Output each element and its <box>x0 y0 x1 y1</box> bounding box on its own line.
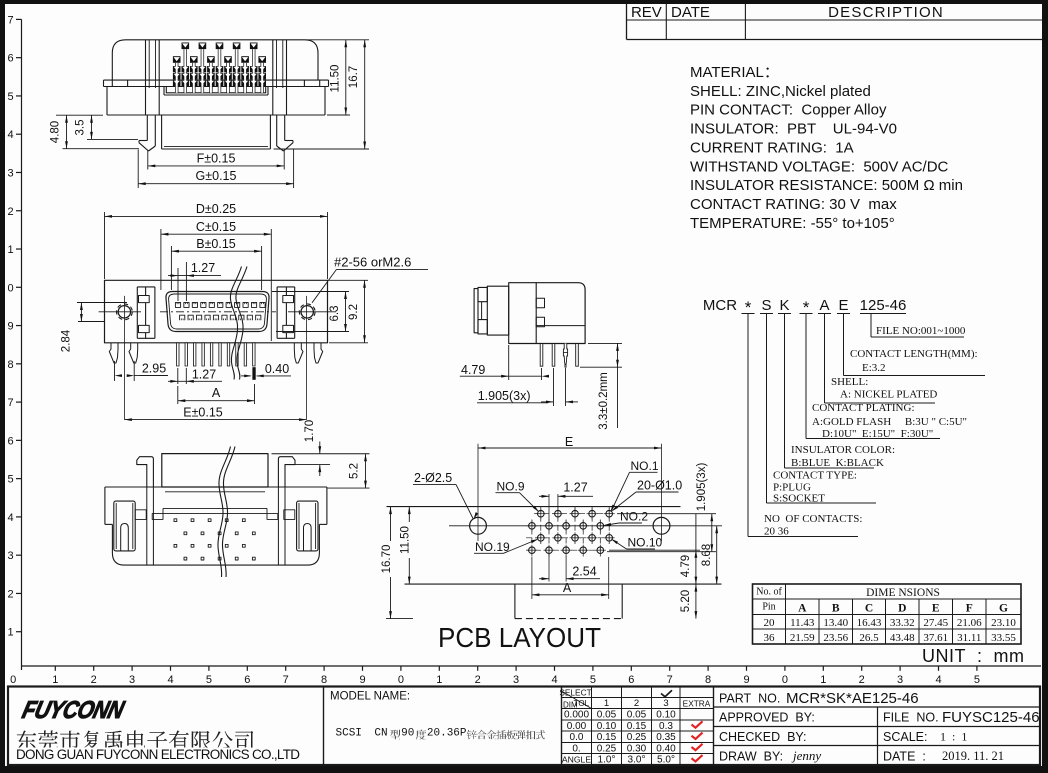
V5 dimension 16.70 <box>390 507 392 541</box>
svg-text:31.11: 31.11 <box>957 632 981 644</box>
svg-text:1.0°: 1.0° <box>598 755 616 766</box>
D-shroud outer <box>166 292 269 332</box>
svg-text:EXTRA: EXTRA <box>683 699 711 709</box>
svg-text:F±0.15: F±0.15 <box>197 151 236 165</box>
svg-text:4.80: 4.80 <box>50 121 62 143</box>
svg-text:8.68: 8.68 <box>701 544 713 566</box>
svg-text:9: 9 <box>7 321 13 333</box>
V5 dimension 4.79 <box>609 549 700 551</box>
svg-text:DATE :: DATE : <box>883 750 926 764</box>
svg-text:125-46: 125-46 <box>860 297 907 314</box>
svg-text:G: G <box>999 603 1008 615</box>
svg-text:20: 20 <box>764 617 776 629</box>
svg-text:0.3: 0.3 <box>659 721 673 732</box>
svg-text:2: 2 <box>475 674 481 686</box>
svg-text:5: 5 <box>7 474 13 486</box>
svg-text:MCR: MCR <box>703 297 737 314</box>
svg-text:6.3: 6.3 <box>329 306 341 322</box>
svg-text:CONTACT LENGTH(MM):: CONTACT LENGTH(MM): <box>850 348 978 360</box>
svg-text:0.15: 0.15 <box>597 732 617 743</box>
mounting holes 2-Ø2.5 <box>470 517 487 534</box>
svg-text:20-Ø1.0: 20-Ø1.0 <box>637 479 682 493</box>
svg-text:33.55: 33.55 <box>991 632 1016 644</box>
svg-text:8: 8 <box>7 359 13 371</box>
svg-text:WITHSTAND VOLTAGE: 500V AC/DC: WITHSTAND VOLTAGE: 500V AC/DC <box>690 158 949 175</box>
svg-text:PIN CONTACT: Copper Alloy: PIN CONTACT: Copper Alloy <box>690 102 887 119</box>
svg-text:DIME NSIONS: DIME NSIONS <box>866 587 940 599</box>
V5 dimension 2.54 <box>548 554 550 582</box>
svg-text:2: 2 <box>7 588 13 600</box>
left ruler <box>16 18 22 20</box>
center line of contacts <box>160 311 276 313</box>
pins row (front view) <box>177 343 179 366</box>
svg-text:16.43: 16.43 <box>857 617 882 629</box>
svg-text:9: 9 <box>743 674 749 686</box>
svg-text:A: A <box>819 297 829 314</box>
svg-text:Pin: Pin <box>762 602 775 613</box>
svg-text:3: 3 <box>663 698 668 709</box>
board tab <box>514 584 516 619</box>
V1 dimension 4.80 <box>56 114 103 116</box>
svg-text:APPROVED BY:: APPROVED BY: <box>719 711 815 725</box>
tolerance select table <box>562 697 714 699</box>
svg-text:2019. 11. 21: 2019. 11. 21 <box>942 749 1004 763</box>
svg-text:K: K <box>779 297 789 314</box>
V5 dimension 11.50 <box>408 507 410 522</box>
svg-text:11.50: 11.50 <box>400 526 412 554</box>
svg-text:0.40: 0.40 <box>265 362 289 376</box>
front body <box>105 280 328 343</box>
flange notches <box>536 298 544 308</box>
svg-text:0.05: 0.05 <box>597 710 617 721</box>
svg-text:23.10: 23.10 <box>991 617 1016 629</box>
svg-text:S:SOCKET: S:SOCKET <box>773 493 825 505</box>
svg-text:0: 0 <box>398 674 404 686</box>
svg-text:ANGLE: ANGLE <box>562 755 591 765</box>
svg-text:MODEL NAME:: MODEL NAME: <box>330 691 410 703</box>
pins (side view) <box>540 344 543 367</box>
svg-text:0.0: 0.0 <box>570 732 584 743</box>
V2 dimension 2.84 <box>77 302 127 304</box>
svg-text:SHELL:: SHELL: <box>831 376 868 388</box>
svg-text:13.40: 13.40 <box>823 617 848 629</box>
legs with hooks (top view) <box>146 115 148 141</box>
V1 dimension 16.7 <box>350 39 369 41</box>
svg-text:20 36: 20 36 <box>764 526 789 538</box>
svg-text:UNIT : mm: UNIT : mm <box>922 646 1025 666</box>
V4 dimension 3.3±0.2mm <box>588 342 622 344</box>
VIEW 2: connector front view <box>99 280 336 419</box>
svg-text:1.27: 1.27 <box>192 368 216 382</box>
shroud rear face <box>162 454 268 487</box>
svg-text:3: 3 <box>513 674 519 686</box>
svg-text:FILE NO.: FILE NO. <box>883 711 939 725</box>
svg-text:NO.9: NO.9 <box>497 479 525 493</box>
step notches <box>152 514 163 520</box>
pin holes 20-Ø1.0 <box>538 510 545 517</box>
svg-text:A: A <box>212 386 221 400</box>
svg-text:5: 5 <box>7 91 13 103</box>
svg-text:23.56: 23.56 <box>823 632 848 644</box>
svg-text:7: 7 <box>7 397 13 409</box>
V5 dimension E <box>478 447 662 449</box>
svg-text:TEMPERATURE: -55° to+105°: TEMPERATURE: -55° to+105° <box>690 215 895 232</box>
svg-text:1.905(3x): 1.905(3x) <box>696 463 708 512</box>
svg-text:0.05: 0.05 <box>627 710 647 721</box>
svg-text:0.40: 0.40 <box>656 744 676 755</box>
VIEW 4: connector side view <box>474 283 585 368</box>
svg-text:16.7: 16.7 <box>348 66 360 88</box>
main block <box>105 486 327 488</box>
svg-text:DRAW BY:: DRAW BY: <box>719 750 783 764</box>
svg-text:21.06: 21.06 <box>957 617 982 629</box>
svg-text:1.27: 1.27 <box>191 261 215 275</box>
svg-text:6: 6 <box>628 674 634 686</box>
svg-text:PART NO.: PART NO. <box>719 692 780 706</box>
break squiggle (front view) <box>230 267 241 380</box>
svg-text:MATERIAL：: MATERIAL： <box>690 64 779 81</box>
svg-text:5.0°: 5.0° <box>657 755 675 766</box>
V5 dimension A <box>531 557 533 599</box>
outer frame borders <box>0 0 1048 4</box>
svg-text:A: NICKEL PLATED: A: NICKEL PLATED <box>840 389 937 401</box>
svg-text:DIM: DIM <box>563 701 578 710</box>
mating face strip <box>474 289 478 333</box>
svg-text:E: E <box>565 435 573 449</box>
svg-text:1.905(3x): 1.905(3x) <box>478 389 531 403</box>
board edge top <box>387 506 681 508</box>
svg-text:1: 1 <box>820 674 826 686</box>
svg-text:E: E <box>838 297 848 314</box>
svg-text:37.61: 37.61 <box>923 632 948 644</box>
svg-text:FILE NO:001~1000: FILE NO:001~1000 <box>876 325 966 337</box>
svg-text:0.10: 0.10 <box>656 710 676 721</box>
svg-text:2.54: 2.54 <box>572 564 596 578</box>
pin tray recess <box>166 87 265 93</box>
REV DATE DESCRIPTION table <box>626 3 628 40</box>
svg-text:CHECKED BY:: CHECKED BY: <box>719 730 807 744</box>
svg-text:11.50: 11.50 <box>330 65 342 93</box>
svg-text:G±0.15: G±0.15 <box>196 169 237 183</box>
svg-text:7: 7 <box>283 674 289 686</box>
svg-text:4: 4 <box>7 129 13 141</box>
V5 dimension 8.68 <box>716 526 718 584</box>
svg-text:27.45: 27.45 <box>923 617 948 629</box>
svg-text:0: 0 <box>7 282 13 294</box>
svg-text:1: 1 <box>436 674 442 686</box>
svg-text:7: 7 <box>7 14 13 26</box>
grid centerlines dashed <box>534 513 614 515</box>
svg-text:20.36P: 20.36P <box>427 728 467 740</box>
svg-text:1 : 1: 1 : 1 <box>940 730 967 744</box>
svg-text:6: 6 <box>244 674 250 686</box>
dimensions table <box>753 584 1022 644</box>
svg-text:C: C <box>865 603 873 615</box>
svg-text:jenny: jenny <box>791 748 821 763</box>
svg-text:5: 5 <box>206 674 212 686</box>
main body block <box>106 87 108 116</box>
svg-text:D±0.25: D±0.25 <box>196 202 236 216</box>
svg-text:9: 9 <box>359 674 365 686</box>
svg-text:4: 4 <box>935 674 941 686</box>
svg-text:4.79: 4.79 <box>680 555 692 577</box>
svg-text:9.2: 9.2 <box>348 304 360 320</box>
svg-text:2: 2 <box>634 698 639 709</box>
svg-text:FUYSC125-46: FUYSC125-46 <box>942 709 1040 726</box>
svg-text:E: E <box>932 603 940 615</box>
V2 dimension B±0.15 <box>170 246 172 290</box>
svg-text:A: A <box>798 603 807 615</box>
svg-text:2-Ø2.5: 2-Ø2.5 <box>414 471 452 485</box>
V5 dimension 5.20 <box>695 584 697 619</box>
flange plate <box>509 283 537 344</box>
V2 dimension A <box>177 386 179 404</box>
latch brackets <box>136 287 138 338</box>
svg-text:5.20: 5.20 <box>680 590 692 612</box>
screw boss pass-through columns <box>146 487 148 565</box>
side fork legs <box>109 343 118 363</box>
svg-text:2: 2 <box>91 674 97 686</box>
V2 dimension C±0.15 <box>160 229 162 290</box>
board edge bottom <box>405 583 722 585</box>
svg-text:SCSI: SCSI <box>336 728 362 740</box>
svg-text:16.70: 16.70 <box>381 545 393 574</box>
svg-text:6: 6 <box>7 53 13 65</box>
svg-text:3.5: 3.5 <box>75 120 87 136</box>
svg-text:3: 3 <box>7 550 13 562</box>
V1 dimension 11.50 <box>306 39 350 41</box>
V2 dimension 1.27 bottom <box>177 368 179 384</box>
part no / approval block <box>714 706 1041 708</box>
svg-text:INSULATOR: PBT UL-94-V0: INSULATOR: PBT UL-94-V0 <box>690 121 897 138</box>
svg-text:DESCRIPTION: DESCRIPTION <box>828 4 944 21</box>
svg-text:1: 1 <box>7 244 13 256</box>
svg-text:NO.19: NO.19 <box>475 540 510 554</box>
svg-text:3: 3 <box>7 167 13 179</box>
svg-text:5.2: 5.2 <box>349 463 361 479</box>
svg-text:3.0°: 3.0° <box>628 755 646 766</box>
svg-text:CN: CN <box>374 728 387 740</box>
svg-text:0.15: 0.15 <box>627 721 647 732</box>
V3 dimension 5.2 <box>272 453 370 455</box>
svg-text:NO.10: NO.10 <box>628 536 663 550</box>
retention clips <box>114 501 135 551</box>
svg-text:B±0.15: B±0.15 <box>196 237 236 251</box>
drawing area border lines <box>21 19 23 670</box>
svg-text:NO OF CONTACTS:: NO OF CONTACTS: <box>764 513 862 525</box>
svg-text:A: A <box>563 581 572 595</box>
V2 dimension 0.40 <box>241 375 251 377</box>
VIEW 1: connector top view <box>104 40 329 151</box>
contacts row 1 <box>175 302 180 307</box>
svg-text:2.84: 2.84 <box>61 329 73 352</box>
svg-text:1: 1 <box>7 627 13 639</box>
svg-text:A:GOLD FLASH B:3U " C:5U": A:GOLD FLASH B:3U " C:5U" <box>812 416 967 428</box>
sectioned pin tip (0.40) <box>252 367 255 380</box>
svg-text:C±0.15: C±0.15 <box>196 220 236 234</box>
svg-text:E:3.2: E:3.2 <box>862 362 886 374</box>
svg-text:0.10: 0.10 <box>597 721 617 732</box>
V2 dimension 6.3 <box>272 291 349 293</box>
V2 dimension 2.95 <box>114 361 116 381</box>
svg-text:1.70: 1.70 <box>304 420 316 442</box>
svg-text:MCR*SK*AE125-46: MCR*SK*AE125-46 <box>786 690 919 707</box>
svg-text:SELECT: SELECT <box>559 688 591 698</box>
flange band <box>104 79 329 81</box>
svg-text:4.79: 4.79 <box>461 363 485 377</box>
main body (side) <box>509 283 585 344</box>
svg-text:B: B <box>832 603 840 615</box>
svg-text:7: 7 <box>667 674 673 686</box>
svg-text:3: 3 <box>129 674 135 686</box>
pins (top view), 5 rear + 6 front with collars <box>182 43 190 50</box>
svg-text:0: 0 <box>10 674 16 686</box>
solder pin tips grid <box>174 519 177 522</box>
svg-text:90: 90 <box>401 728 414 740</box>
svg-text:INSULATOR COLOR:: INSULATOR COLOR: <box>791 444 895 456</box>
svg-text:DATE: DATE <box>671 4 710 21</box>
svg-text:0: 0 <box>782 674 788 686</box>
V1 dimension F±0.15 <box>147 150 149 170</box>
centerlines <box>449 525 722 527</box>
svg-text:CURRENT RATING: 1A: CURRENT RATING: 1A <box>690 139 854 156</box>
svg-text:1.27: 1.27 <box>563 481 587 495</box>
svg-text:4: 4 <box>167 674 173 686</box>
svg-text:CONTACT TYPE:: CONTACT TYPE: <box>773 470 857 482</box>
svg-text:B:BLUE K:BLACK: B:BLUE K:BLACK <box>791 457 884 469</box>
V2 dimension 1.27 top <box>177 268 179 301</box>
svg-text:0.30: 0.30 <box>627 744 647 755</box>
svg-text:21.59: 21.59 <box>790 632 815 644</box>
svg-text:33.32: 33.32 <box>890 617 915 629</box>
svg-text:8: 8 <box>705 674 711 686</box>
svg-text:SCALE:: SCALE: <box>883 730 927 744</box>
VIEW 3: connector bottom view <box>105 454 327 565</box>
svg-text:2.95: 2.95 <box>142 362 166 376</box>
V1 dimension G±0.15 <box>137 150 139 189</box>
svg-text:NO.2: NO.2 <box>620 510 648 524</box>
latch hooks <box>137 457 154 487</box>
V5 dimension 1.905(3x) <box>617 513 716 515</box>
svg-text:5: 5 <box>590 674 596 686</box>
svg-text:4: 4 <box>7 512 13 524</box>
svg-text:3: 3 <box>897 674 903 686</box>
svg-text:43.48: 43.48 <box>890 632 915 644</box>
svg-text:36: 36 <box>764 632 776 644</box>
svg-text:REV: REV <box>631 4 662 21</box>
V5 dimension 1.27 <box>548 494 550 520</box>
svg-text:1: 1 <box>604 698 609 709</box>
svg-text:DONG GUAN FUYCONN ELECTRONICS: DONG GUAN FUYCONN ELECTRONICS CO.,LTD <box>16 747 300 762</box>
center mating box (top view) <box>161 115 163 149</box>
svg-text:PCB LAYOUT: PCB LAYOUT <box>438 622 601 653</box>
V1 dimension 3.5 <box>87 138 138 140</box>
svg-text:S: S <box>761 297 771 314</box>
rounded base <box>112 524 319 565</box>
svg-text:5: 5 <box>974 674 980 686</box>
inner face lines <box>165 491 265 493</box>
V2 dimension E±0.15 <box>124 419 306 421</box>
title block <box>8 687 1040 766</box>
svg-text:1: 1 <box>52 674 58 686</box>
V2 dimension D±0.25 <box>104 212 106 279</box>
svg-text:3.3±0.2mm: 3.3±0.2mm <box>598 372 610 429</box>
contacts row 2 <box>180 315 185 320</box>
svg-text:#2-56 orM2.6: #2-56 orM2.6 <box>334 255 411 270</box>
svg-text:26.5: 26.5 <box>859 632 879 644</box>
company name Chinese <box>17 731 254 748</box>
svg-text:INSULATOR RESISTANCE: 500M Ω m: INSULATOR RESISTANCE: 500M Ω min <box>690 177 963 194</box>
svg-text:4: 4 <box>551 674 557 686</box>
mating block <box>487 286 508 335</box>
svg-text:D:10U" E:15U" F:30U": D:10U" E:15U" F:30U" <box>822 428 933 440</box>
svg-text:NO.1: NO.1 <box>631 459 659 473</box>
svg-text:0.25: 0.25 <box>597 744 617 755</box>
svg-text:CONTACT RATING: 30 V max: CONTACT RATING: 30 V max <box>690 196 897 213</box>
svg-text:0.: 0. <box>572 744 580 755</box>
mounting holes <box>118 306 130 318</box>
svg-text:6: 6 <box>7 435 13 447</box>
svg-text:FUYCONN: FUYCONN <box>20 696 128 724</box>
FUYCONN logo <box>20 696 128 724</box>
svg-text:D: D <box>898 603 906 615</box>
svg-text:SHELL: ZINC,Nickel plated: SHELL: ZINC,Nickel plated <box>690 83 871 100</box>
mating tabs <box>478 287 487 301</box>
svg-text:8: 8 <box>321 674 327 686</box>
screw posts <box>145 40 147 115</box>
break squiggle (bottom view) <box>218 447 231 578</box>
svg-text:0.25: 0.25 <box>627 732 647 743</box>
svg-text:CONTACT PLATING:: CONTACT PLATING: <box>812 402 915 414</box>
svg-text:F: F <box>966 603 973 615</box>
svg-text:2: 2 <box>7 206 13 218</box>
svg-text:2: 2 <box>859 674 865 686</box>
svg-text:0.00: 0.00 <box>567 721 587 732</box>
svg-text:11.43: 11.43 <box>790 617 815 629</box>
svg-text:0.35: 0.35 <box>656 732 676 743</box>
V2 dimension 9.2 <box>329 279 368 281</box>
svg-text:0.000: 0.000 <box>564 710 589 721</box>
svg-text:E±0.15: E±0.15 <box>183 406 223 420</box>
svg-text:No. of: No. of <box>756 587 782 598</box>
